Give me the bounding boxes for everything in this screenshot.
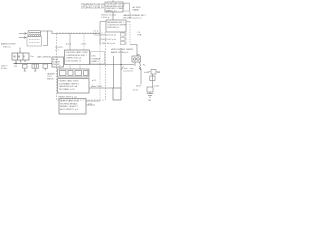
led schema box bbox=[91, 52, 105, 65]
svg-text:RESET CARD STOR: RESET CARD STOR bbox=[60, 100, 79, 103]
svg-text:VOORRAAD ZEKER 1: VOORRAAD ZEKER 1 bbox=[59, 82, 80, 85]
connector row box A2 bbox=[58, 69, 90, 77]
aux contact symbol bbox=[32, 64, 39, 71]
big dashed module outline bbox=[57, 33, 106, 100]
svg-text:aarde: aarde bbox=[154, 86, 160, 88]
transformer T1 body bbox=[27, 37, 42, 47]
svg-text:AANSLUITKABEL NR 2: AANSLUITKABEL NR 2 bbox=[124, 14, 147, 17]
svg-text:(2) N: (2) N bbox=[82, 43, 87, 45]
secondary wire top run bbox=[70, 33, 100, 35]
label ae cursus bbox=[38, 56, 52, 59]
svg-text:AANSL. 1x: AANSL. 1x bbox=[106, 9, 117, 12]
wire N1 dashed continuation bbox=[99, 44, 101, 101]
svg-text:STORING BERALD: STORING BERALD bbox=[60, 102, 78, 105]
terminal block X1 bbox=[12, 53, 29, 60]
lamp symbol box bbox=[151, 70, 156, 75]
svg-text:50 Hz: 50 Hz bbox=[1, 68, 7, 70]
svg-text:KABEL: KABEL bbox=[133, 9, 141, 12]
svg-text:(Akku 230V): (Akku 230V) bbox=[91, 85, 102, 88]
svg-text:230 V p.: 230 V p. bbox=[3, 46, 12, 48]
aux contact 2 bbox=[43, 64, 48, 71]
label Kai bbox=[31, 56, 35, 58]
label Fp bbox=[143, 65, 146, 67]
M1 text bbox=[53, 58, 61, 66]
option row 2 bbox=[101, 39, 116, 41]
fuse F2 bbox=[150, 76, 155, 81]
bottom right labels bbox=[136, 86, 160, 88]
label p06 bbox=[88, 104, 93, 106]
junction dot bus bbox=[120, 64, 122, 66]
mid note text row bbox=[101, 14, 117, 20]
wire elbow to relay bbox=[130, 45, 137, 57]
lamp row links bbox=[148, 71, 161, 73]
svg-text:NR 230V aansl. p.1: NR 230V aansl. p.1 bbox=[124, 18, 143, 20]
A1 text bbox=[66, 51, 89, 62]
label laagse cycl bbox=[47, 73, 55, 81]
mains bus wire bbox=[14, 63, 53, 65]
led schema text bbox=[92, 56, 101, 64]
label temperature/storing note bbox=[81, 3, 105, 10]
wire mains down bbox=[19, 48, 21, 54]
switch S1 bbox=[121, 48, 124, 88]
fuse F1 bbox=[23, 65, 28, 72]
cable bracket to right of U1 bbox=[123, 3, 130, 11]
svg-text:SCHEMA: SCHEMA bbox=[92, 57, 101, 60]
input arrows bbox=[19, 33, 27, 39]
tick wire bbox=[94, 34, 100, 36]
label 2.0 PTA bbox=[138, 32, 142, 37]
label mp bbox=[137, 54, 141, 56]
controller box U1 text bbox=[106, 2, 125, 12]
wire dashed right drop bbox=[126, 21, 130, 23]
bus wire A1 right bbox=[90, 64, 135, 66]
label p.xx bbox=[66, 43, 72, 45]
aux card box A4 bbox=[59, 99, 86, 115]
svg-text:LED: LED bbox=[92, 56, 96, 58]
drop wire a bbox=[69, 34, 71, 51]
power card box A1 bbox=[65, 50, 90, 65]
terminal box X2 bbox=[147, 87, 153, 92]
option row 1 bbox=[101, 35, 116, 37]
svg-text:t/h 2a: t/h 2a bbox=[133, 88, 139, 91]
X1 cell marks bbox=[14, 56, 25, 58]
svg-text:5x20 250mA 1 x2: 5x20 250mA 1 x2 bbox=[66, 59, 82, 62]
relay contact block K1 bbox=[132, 56, 141, 62]
wire A4 right lower bbox=[86, 104, 95, 106]
svg-text:1 TAFEL P.06 zek: 1 TAFEL P.06 zek bbox=[66, 57, 82, 60]
ground bbox=[147, 92, 153, 97]
label aansluiting bbox=[1, 43, 16, 49]
svg-text:VOEDING CARD COMP: VOEDING CARD COMP bbox=[66, 51, 89, 54]
svg-text:T/H STABIL 1 x20: T/H STABIL 1 x20 bbox=[59, 88, 76, 91]
svg-text:AL 230V: AL 230V bbox=[133, 6, 142, 9]
svg-text:ln 4A: ln 4A bbox=[144, 71, 149, 74]
svg-text:SNELH.: SNELH. bbox=[47, 78, 54, 80]
option row 1 bracket bbox=[121, 33, 127, 36]
X1 bottom leads bbox=[16, 60, 25, 64]
main card box A3 bbox=[58, 79, 90, 94]
option row 3 bracket bbox=[121, 42, 127, 45]
label akku bbox=[91, 85, 102, 88]
label motor bbox=[56, 47, 64, 51]
label AL 230V bbox=[133, 6, 142, 12]
contact arrow bbox=[139, 66, 141, 70]
keypad box U2 bbox=[106, 20, 126, 32]
wire lamp to fuse F2 bbox=[152, 74, 154, 87]
compressor group box M1 bbox=[52, 57, 64, 67]
label GB bbox=[148, 100, 152, 102]
right note text bbox=[124, 14, 147, 20]
label p05 bbox=[92, 80, 97, 82]
svg-text:(p.) N: (p.) N bbox=[66, 43, 72, 45]
lamp row labels bbox=[144, 71, 161, 74]
svg-text:1-2 blz p.: 1-2 blz p. bbox=[101, 17, 110, 19]
svg-text:COMPRESSOR GRP 1: COMPRESSOR GRP 1 bbox=[66, 55, 88, 57]
svg-text:AANSLUITING: AANSLUITING bbox=[1, 43, 16, 46]
svg-text:230V: 230V bbox=[136, 86, 141, 88]
transformer T1 windings bbox=[28, 31, 41, 37]
svg-text:STORING DISPLAY: STORING DISPLAY bbox=[81, 6, 105, 10]
svg-text:uit p.: uit p. bbox=[130, 67, 135, 70]
svg-text:zek.: zek. bbox=[157, 72, 161, 74]
svg-text:BERALD T/H AUTO: BERALD T/H AUTO bbox=[60, 105, 78, 108]
keypad box U2 text bbox=[107, 22, 127, 29]
svg-text:RESET KNOP p. (2): RESET KNOP p. (2) bbox=[59, 97, 77, 99]
label 2.1 tick bbox=[94, 31, 99, 36]
svg-text:VERLICHTING THERM.: VERLICHTING THERM. bbox=[111, 49, 134, 51]
svg-text:(100-6) Dk 2 p.1x: (100-6) Dk 2 p.1x bbox=[101, 39, 116, 41]
A3 text bbox=[59, 80, 80, 91]
switch row link bbox=[123, 70, 133, 72]
svg-text:(400-5) Dk 4 p.2x: (400-5) Dk 4 p.2x bbox=[101, 35, 116, 37]
A4 text bbox=[60, 100, 79, 111]
relay note 2 bbox=[133, 88, 139, 91]
svg-text:(AE CURSUS): (AE CURSUS) bbox=[38, 56, 52, 59]
svg-text:( 230 ) Dk 1 p.3x: ( 230 ) Dk 1 p.3x bbox=[101, 43, 116, 45]
K1 leads bbox=[135, 62, 141, 66]
controller box U1 bbox=[105, 0, 123, 12]
wire S1 to lamp row bbox=[140, 70, 142, 85]
junction dot bbox=[15, 63, 17, 65]
wire thermostat drop bbox=[113, 56, 115, 88]
option row 2 bracket bbox=[121, 37, 127, 40]
stubs C1 to connector row bbox=[60, 65, 80, 69]
svg-text:ZEKERING 5x20 mA: ZEKERING 5x20 mA bbox=[59, 85, 78, 88]
svg-text:AANSLUITING p.6: AANSLUITING p.6 bbox=[111, 51, 129, 54]
label 230V bbox=[1, 66, 9, 71]
switch labels bbox=[124, 67, 135, 70]
wire bracket down bbox=[129, 11, 131, 19]
label (x) bbox=[82, 43, 87, 45]
svg-text:AUTO RESET 1 p.6: AUTO RESET 1 p.6 bbox=[60, 108, 79, 111]
lead marks under bus bbox=[14, 66, 18, 68]
label verlichting thermostaat bbox=[111, 49, 134, 54]
svg-text:PTA: PTA bbox=[138, 33, 142, 36]
svg-text:230 V~: 230 V~ bbox=[1, 66, 9, 68]
svg-text:DISPLAY p.2: DISPLAY p.2 bbox=[107, 26, 120, 29]
wire T1 to dashed module bbox=[48, 31, 71, 34]
svg-text:p. 2: p. 2 bbox=[56, 50, 59, 52]
label reset bbox=[59, 97, 77, 99]
svg-text:LINKER CARD VOED: LINKER CARD VOED bbox=[59, 80, 79, 83]
option row 3 bbox=[101, 43, 116, 45]
svg-text:LAMP p.: LAMP p. bbox=[92, 60, 100, 63]
wire from U2 left down net N1 bbox=[100, 22, 106, 45]
drop wire b bbox=[83, 34, 85, 51]
transformer right wire loop bbox=[41, 31, 48, 46]
svg-text:Gebruik zie wzd.: Gebruik zie wzd. bbox=[101, 14, 117, 17]
svg-text:aan: aan bbox=[124, 68, 127, 70]
svg-text:Kai: Kai bbox=[31, 56, 35, 58]
wire A3 to relay bbox=[89, 87, 113, 89]
relay coil K2 bbox=[113, 88, 121, 100]
transformer stipple bbox=[29, 40, 40, 43]
wire U1 to keypad box bbox=[112, 12, 114, 20]
wire A4 right upper bbox=[86, 100, 100, 102]
